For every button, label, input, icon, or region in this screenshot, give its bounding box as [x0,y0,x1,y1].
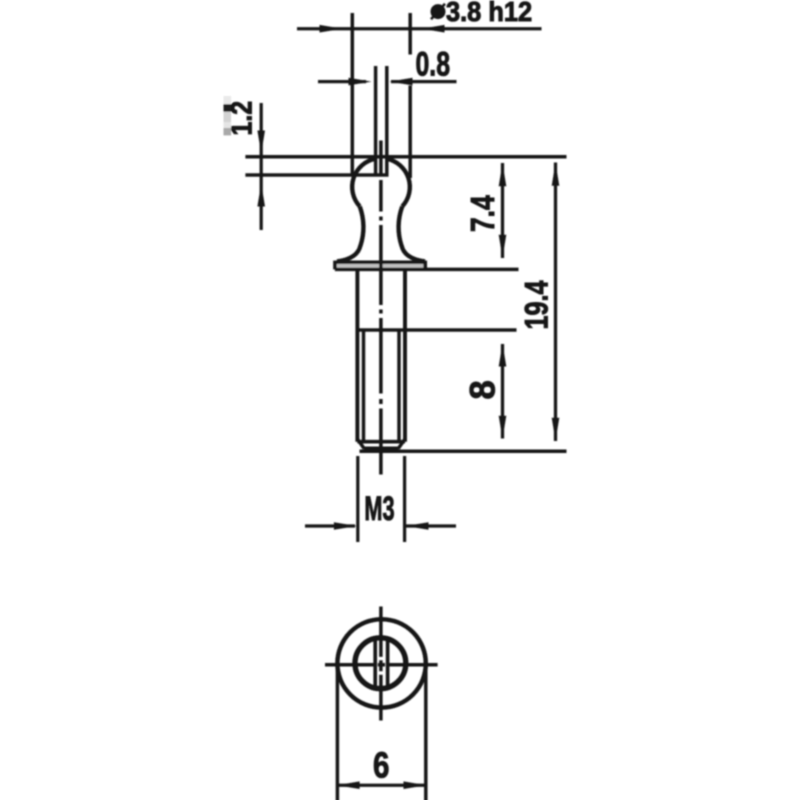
dim line 0.8 right [391,80,457,83]
arrow 6 left [337,781,360,789]
thread minor diameter left [362,330,366,441]
flange top edge [335,260,425,264]
neck right concave [399,207,403,247]
ball left arc [352,159,375,207]
dim line M3 left [305,524,355,527]
bottom view horizontal centerline [325,663,438,667]
chamfer start line [357,440,405,444]
arrow M3 left [334,522,357,530]
arrow 7.4 up [499,163,507,186]
flange gray interior [337,264,424,268]
dim 6 extension line right (tangent) [424,663,428,800]
dim line 7.4 [501,163,504,258]
arrow dia3.8 left [320,25,343,33]
svg-text:8: 8 [463,380,503,399]
dim line 1.2 [260,103,263,230]
ball right arc [387,159,410,207]
bottom extension line (19.4) [360,450,567,454]
dim line 19.4 [554,163,557,442]
bottom view slot right chord [386,638,390,688]
svg-text:19.4: 19.4 [519,280,555,330]
dim line M3 right [406,524,456,527]
dim line 8 [501,344,504,439]
artifact gray blocks left of 1.2 [224,96,232,135]
arrow 19.4 down [552,418,560,441]
stud end face [364,447,399,451]
bottom view vertical centerline [379,607,383,721]
neck left concave [360,207,364,247]
arrow dia3.8 right [422,25,445,33]
svg-text:0.8: 0.8 [416,46,450,84]
slot left line [374,66,378,176]
svg-text:M3: M3 [364,490,394,528]
dim 6 extension line left (tangent) [336,663,340,800]
dia 3.8 right extension line (gap at 0.8 label) [408,13,412,178]
ball top reference line [245,155,566,159]
arrow 1.2 up [257,184,265,207]
slot bottom line / 1.2 lower extension [245,173,388,177]
dim line dia3.8 h12 [297,27,542,30]
arrow 7.4 down [499,235,507,258]
bottom view inner circle (ball) [355,638,406,689]
arrow 19.4 up [552,163,560,186]
arrow 0.8 right [390,78,413,86]
M3 extension line right [403,456,406,542]
label dia symbol [431,4,445,19]
thread minor diameter right [397,330,401,441]
arrow 8 down [499,416,507,439]
flange right edge [423,261,427,270]
arrow 6 right [404,781,427,789]
cone right [402,246,425,262]
flange bottom edge + extension line to right (7.4) [335,268,519,272]
bottom view slot left chord [373,638,377,688]
arrow 8 up [499,344,507,367]
arrow 0.8 left [349,78,372,86]
main vertical centerline [379,141,383,475]
svg-text:7.4: 7.4 [465,195,501,232]
thread start line + extension to right (8) [357,328,516,332]
chamfer right diagonal [398,439,405,449]
flange left edge [333,261,337,270]
bottom view outer circle (dia 6) [337,619,425,707]
cone left [337,246,360,262]
shank right edge [403,269,407,441]
slot right line [385,66,389,176]
chamfer left diagonal [357,439,364,449]
M3 extension line left [356,456,359,542]
dim line 6 [338,784,425,787]
arrow 1.2 down [257,131,265,154]
svg-text:3.8 h12: 3.8 h12 [446,0,532,27]
shank left edge [355,269,359,441]
dia 3.8 left extension line [351,13,355,177]
svg-text:6: 6 [373,744,389,784]
arrow M3 right [406,522,429,530]
dim line 0.8 left [318,80,366,83]
